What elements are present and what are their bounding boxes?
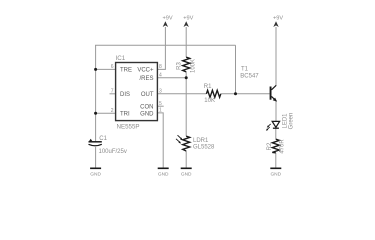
resistor R2 xyxy=(267,139,286,154)
wire pin4 /RES to R3 node xyxy=(157,77,186,79)
wire emitter to LED xyxy=(275,101,277,122)
wire left rail (TRE/TRI/C1 node) xyxy=(95,45,97,141)
capacitor C1 xyxy=(89,136,127,168)
svg-text:R3: R3 xyxy=(176,62,182,70)
svg-text:IC1: IC1 xyxy=(116,55,126,62)
ground (R2) xyxy=(270,168,281,177)
wire LDR to ground xyxy=(185,151,187,168)
svg-text:2: 2 xyxy=(111,108,114,114)
svg-text:/RES: /RES xyxy=(139,76,153,82)
svg-text:10K: 10K xyxy=(204,98,215,104)
svg-text:1: 1 xyxy=(159,108,162,114)
svg-text:TRI: TRI xyxy=(120,111,130,117)
wire pin7 DIS stub xyxy=(110,93,116,95)
svg-text:GND: GND xyxy=(158,171,169,177)
wire +9V3 to collector xyxy=(275,27,277,86)
svg-text:100K: 100K xyxy=(190,59,196,73)
wire R2 to ground xyxy=(275,153,277,168)
wire pin6 TRE xyxy=(96,68,116,70)
svg-text:GND: GND xyxy=(181,171,192,177)
wire feedback vertical to base node xyxy=(235,45,237,94)
node TRE junction xyxy=(94,68,97,71)
svg-text:470R: 470R xyxy=(279,139,285,154)
svg-text:GND: GND xyxy=(270,171,281,177)
svg-text:NE555P: NE555P xyxy=(117,124,140,131)
svg-text:+9V: +9V xyxy=(183,16,193,22)
wire LED to R2 xyxy=(275,129,277,140)
svg-text:CON: CON xyxy=(140,105,153,111)
svg-text:100uF/25v: 100uF/25v xyxy=(99,149,127,155)
svg-text:4: 4 xyxy=(159,73,162,79)
svg-text:3: 3 xyxy=(159,89,162,95)
wire pin5 CON stub xyxy=(157,105,163,107)
node TRI junction xyxy=(94,112,97,115)
svg-text:TRE: TRE xyxy=(120,68,132,74)
svg-text:GND: GND xyxy=(90,171,101,177)
wire pin8 VCC to +9V xyxy=(157,27,165,69)
wire pin1 GND to ground xyxy=(157,113,163,168)
node base junction xyxy=(234,92,237,95)
resistor R1 xyxy=(204,84,221,104)
ground (LDR) xyxy=(181,168,192,177)
resistor R3 xyxy=(176,57,196,73)
wire pin3 OUT to R1 xyxy=(157,93,206,95)
svg-text:6: 6 xyxy=(111,64,114,70)
power +9V (R3) xyxy=(183,16,193,28)
transistor T1 BC547 xyxy=(240,66,277,101)
svg-text:Green: Green xyxy=(288,113,294,130)
ground (C1) xyxy=(90,168,101,177)
svg-text:GL5528: GL5528 xyxy=(193,144,215,150)
wire pin2 TRI xyxy=(96,112,116,114)
wire R3 to LDR xyxy=(185,72,187,136)
svg-text:R2: R2 xyxy=(267,142,273,150)
svg-text:8: 8 xyxy=(159,64,162,70)
ground (IC pin1) xyxy=(158,168,169,177)
svg-text:+9V: +9V xyxy=(162,16,172,22)
power +9V (pin8) xyxy=(162,16,172,28)
svg-text:T1: T1 xyxy=(241,66,249,72)
wire top feedback horizontal xyxy=(95,44,235,46)
svg-text:BC547: BC547 xyxy=(240,73,259,79)
wire R1 to base xyxy=(221,93,270,95)
svg-text:OUT: OUT xyxy=(141,92,154,98)
wire +9V2 to R3 xyxy=(185,27,187,57)
LDR1 GL5528 xyxy=(176,135,215,151)
svg-text:GND: GND xyxy=(140,111,154,117)
svg-text:C1: C1 xyxy=(99,136,107,142)
svg-text:R1: R1 xyxy=(204,84,212,90)
svg-text:5: 5 xyxy=(159,101,162,107)
power +9V (collector) xyxy=(273,16,283,28)
svg-text:LDR1: LDR1 xyxy=(193,138,209,144)
svg-text:7: 7 xyxy=(111,89,114,95)
svg-text:+9V: +9V xyxy=(273,16,283,22)
node R3 /RES junction xyxy=(185,76,188,79)
op-amp IC1 NE555P body xyxy=(116,55,158,131)
svg-text:VCC+: VCC+ xyxy=(137,68,154,74)
LED1 Green xyxy=(266,113,294,131)
svg-text:DIS: DIS xyxy=(120,92,130,98)
